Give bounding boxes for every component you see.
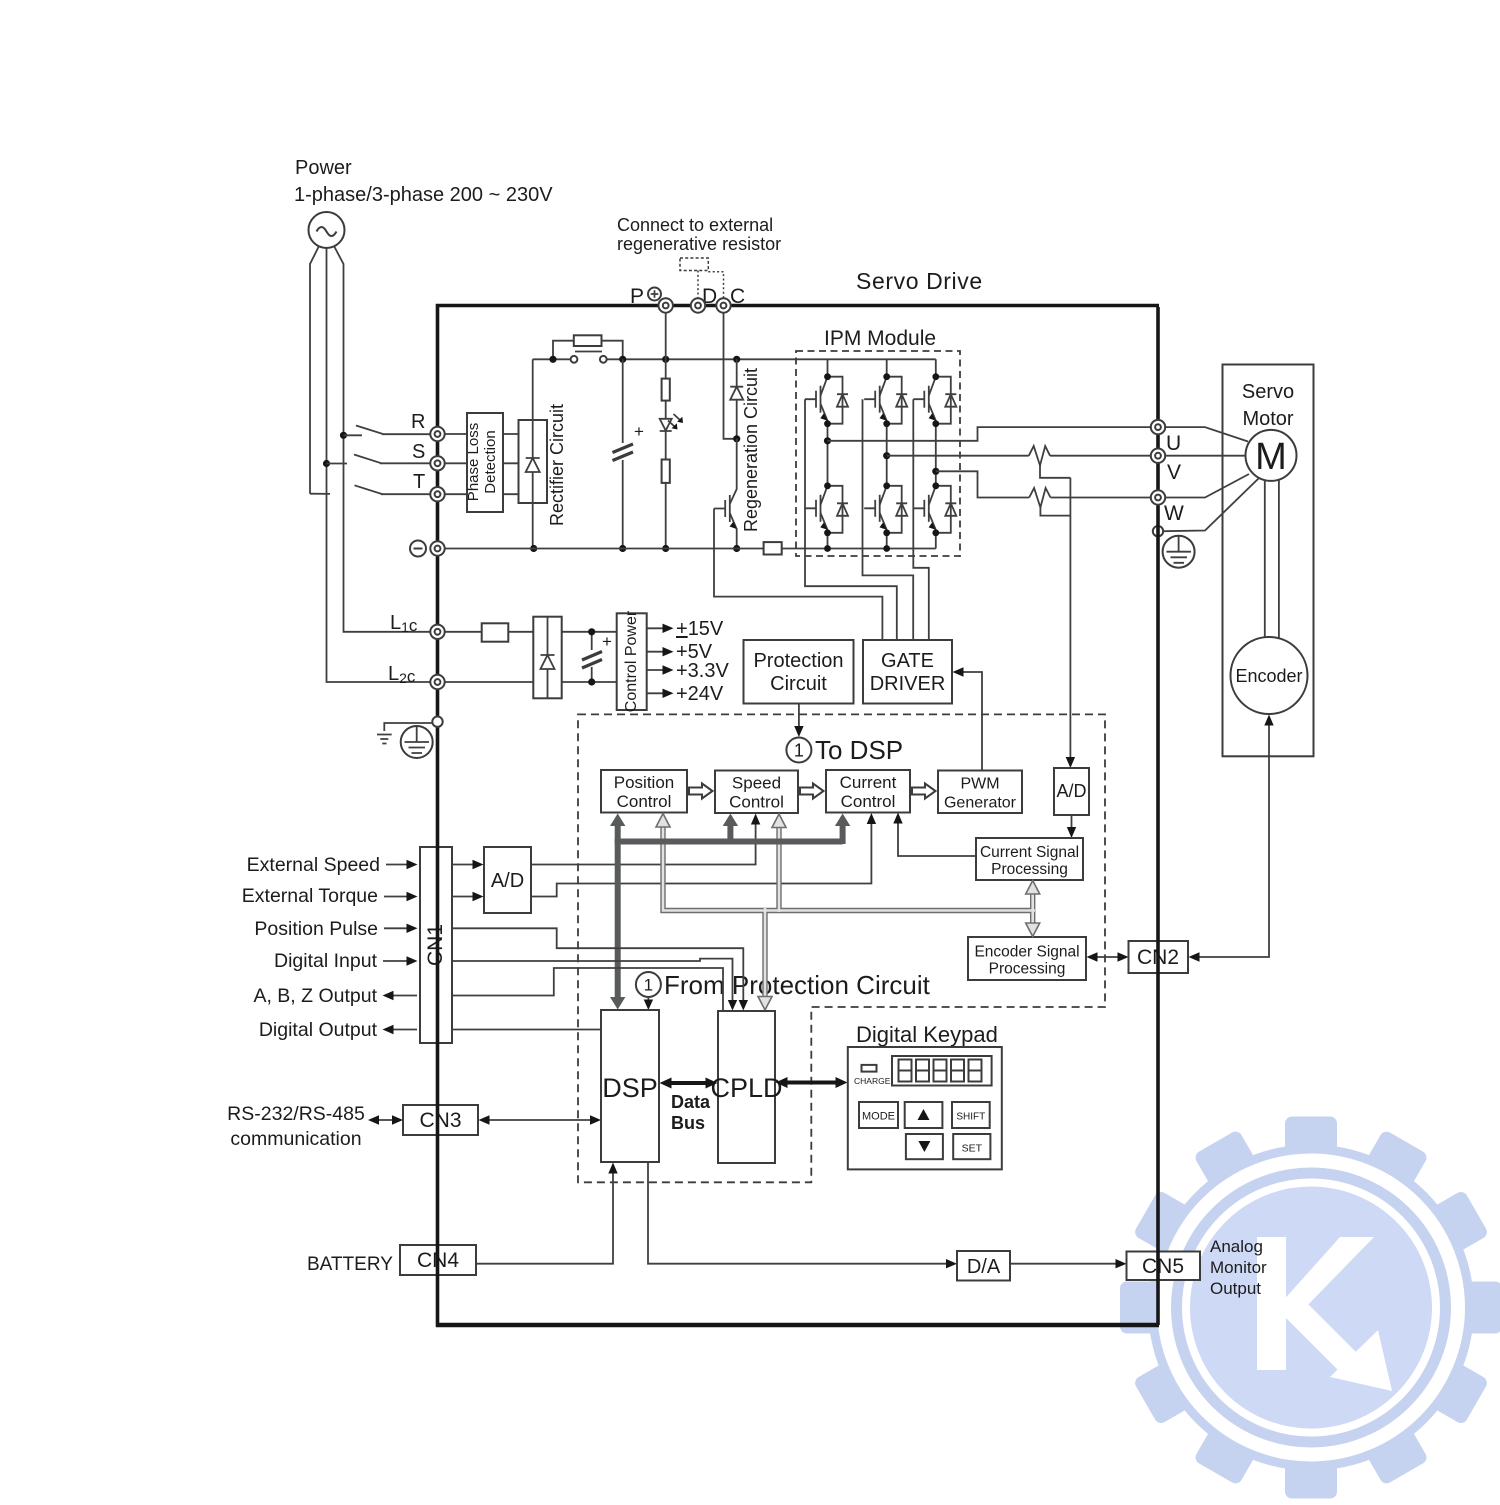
wire R row to PLD and rectifier — [445, 433, 519, 435]
wire L1c to fuse — [445, 631, 482, 633]
up button — [905, 1102, 943, 1128]
svg-text:communication: communication — [230, 1128, 361, 1150]
svg-text:W: W — [1164, 502, 1184, 525]
DSP box — [601, 1010, 659, 1162]
svg-text:DRIVER: DRIVER — [870, 673, 946, 695]
terminal C — [716, 298, 730, 312]
IPM leg 3 wires — [935, 359, 937, 548]
svg-text:+: + — [634, 422, 644, 441]
AC source — [309, 212, 345, 248]
transistor Q2 upper leg2 — [864, 373, 907, 427]
wire PE to motor — [1163, 479, 1258, 532]
node regen top — [733, 356, 740, 363]
svg-text:+24V: +24V — [676, 683, 724, 705]
fuse L1c — [482, 623, 509, 641]
transistor Q4 lower leg1 — [805, 482, 848, 536]
node S junction — [323, 460, 330, 467]
svg-text:External Torque: External Torque — [242, 885, 378, 907]
svg-text:Data: Data — [671, 1092, 711, 1112]
Digital Keypad panel — [848, 1047, 1002, 1169]
svg-text:Connect to external: Connect to external — [617, 215, 773, 235]
Phase Loss Detection box — [467, 413, 503, 512]
node rectifier bottom — [530, 545, 537, 552]
svg-text:1: 1 — [644, 976, 653, 995]
minus terminal symbol — [410, 541, 426, 557]
Protection Circuit box — [744, 640, 854, 704]
node regen mid — [733, 435, 740, 442]
svg-text:Output: Output — [1210, 1279, 1261, 1298]
transistor Q3 upper leg3 — [913, 373, 956, 427]
relay blade — [575, 351, 602, 353]
node leg2 bus — [883, 545, 890, 552]
arrow digital input — [383, 960, 412, 962]
terminal D — [691, 298, 705, 312]
wire +24V out — [647, 692, 668, 694]
Rectifier box — [519, 420, 548, 503]
svg-text:Regeneration Circuit: Regeneration Circuit — [741, 368, 761, 532]
shunt resistor — [764, 542, 782, 554]
seven segment display — [892, 1056, 992, 1086]
gate wire middle pair — [863, 399, 914, 639]
wire AD1 speed command — [531, 819, 756, 865]
node control cap bottom — [588, 678, 595, 685]
switch S — [327, 455, 431, 464]
switch T — [310, 485, 431, 494]
svg-text:Digital Output: Digital Output — [259, 1019, 378, 1041]
MODE button — [859, 1102, 898, 1128]
soft start resistor — [574, 335, 602, 346]
Servo Motor box — [1223, 365, 1314, 757]
svg-text:Processing: Processing — [991, 861, 1068, 878]
svg-text:A/D: A/D — [491, 870, 524, 892]
bulk capacitor plates — [613, 444, 634, 461]
node leg1 bus — [824, 545, 831, 552]
svg-text:Motor: Motor — [1242, 408, 1293, 430]
svg-text:Current: Current — [840, 773, 897, 792]
down button — [906, 1134, 943, 1159]
node W tap — [932, 468, 939, 475]
servo drive border — [438, 306, 1160, 1326]
CN1 box — [420, 847, 452, 1043]
watermark gear logo — [1120, 1117, 1500, 1499]
svg-text:BATTERY: BATTERY — [307, 1254, 393, 1275]
svg-text:To DSP: To DSP — [815, 735, 903, 765]
terminal L1c — [430, 625, 444, 639]
PWM Generator box — [938, 771, 1022, 814]
IPM leg 1 wires — [827, 359, 829, 548]
wire fuse to control rectifier — [508, 631, 533, 633]
svg-text:SHIFT: SHIFT — [956, 1112, 985, 1123]
svg-text:regenerative resistor: regenerative resistor — [617, 234, 781, 254]
svg-text:CN3: CN3 — [419, 1109, 461, 1132]
wire S row to PLD and rectifier — [445, 462, 519, 464]
relay contact circles — [571, 356, 578, 363]
A/D box right — [1054, 768, 1089, 815]
motor shaft lines — [1265, 480, 1279, 638]
svg-text:R: R — [411, 411, 425, 433]
svg-text:Control: Control — [617, 792, 672, 811]
gate wire left pair — [805, 399, 897, 639]
svg-text:Control Power: Control Power — [623, 610, 640, 712]
wire +5V out — [647, 651, 668, 653]
block arrow position to speed — [689, 784, 713, 799]
wire phase S from source — [326, 248, 328, 464]
servo drive border bottom — [436, 1323, 1159, 1328]
CN4 box — [400, 1245, 476, 1275]
wire protection to note1 — [798, 704, 800, 732]
svg-text:M: M — [1255, 436, 1287, 478]
node 1 To DSP — [786, 738, 811, 763]
PE circle symbol right — [1163, 536, 1195, 568]
wire S node to L2c — [327, 464, 431, 683]
terminal T — [430, 487, 444, 501]
switch R — [344, 426, 431, 436]
svg-text:SET: SET — [962, 1143, 983, 1155]
wire CSP to current control — [898, 818, 976, 857]
svg-text:D/A: D/A — [967, 1256, 1001, 1278]
svg-text:1-phase/3-phase 200 ~ 230V: 1-phase/3-phase 200 ~ 230V — [294, 184, 553, 206]
Speed Control box — [715, 771, 798, 814]
LED arrows — [668, 414, 680, 427]
bottom DC bus — [445, 548, 936, 550]
wire encoder feedback — [1194, 725, 1269, 957]
CN3 box — [403, 1105, 478, 1135]
bulk capacitor branch — [622, 359, 624, 548]
transistor Q5 lower leg2 — [864, 482, 907, 536]
svg-text:Position: Position — [614, 773, 674, 792]
wire current sense W drop — [1040, 508, 1070, 516]
svg-text:Digital Keypad: Digital Keypad — [856, 1022, 998, 1047]
terminal W — [1151, 490, 1165, 504]
wire rect to control power bottom — [562, 681, 617, 683]
open arrowhead into ESP — [1026, 923, 1040, 937]
svg-text:External Speed: External Speed — [247, 854, 380, 876]
svg-text:Processing: Processing — [989, 961, 1066, 978]
wire PWM to gate driver — [958, 672, 983, 771]
svg-text:IPM Module: IPM Module — [824, 327, 936, 350]
main schematic — [227, 157, 1313, 1325]
wire rectifier bottom to bus — [532, 503, 534, 549]
svg-text:V: V — [1167, 461, 1181, 484]
node V tap — [883, 452, 890, 459]
block arrow speed to current — [800, 784, 824, 799]
control cap plates — [582, 652, 602, 669]
svg-text:RS-232/RS-485: RS-232/RS-485 — [227, 1103, 365, 1125]
Position Control box — [601, 770, 687, 813]
CN2 box — [1129, 941, 1189, 973]
arrow position pulse — [384, 927, 412, 929]
wire L2c to control rectifier — [445, 681, 534, 683]
regen diode branch — [730, 359, 743, 439]
gate wire right pair — [913, 399, 929, 639]
svg-text:T: T — [413, 471, 425, 493]
terminal minus — [430, 541, 444, 555]
wire C terminal drop — [724, 312, 737, 439]
svg-text:PWM: PWM — [960, 776, 999, 793]
indicator LED — [660, 419, 672, 460]
svg-text:Phase Loss: Phase Loss — [465, 423, 482, 501]
svg-text:A/D: A/D — [1056, 781, 1086, 801]
svg-text:CN5: CN5 — [1142, 1255, 1184, 1278]
thick gray arrow DSP position — [615, 820, 621, 1003]
svg-text:Servo: Servo — [1242, 381, 1294, 403]
A/D box left — [484, 847, 531, 913]
wire DSP to DA — [648, 1162, 952, 1264]
svg-text:Servo Drive: Servo Drive — [856, 268, 983, 294]
svg-text:Position Pulse: Position Pulse — [254, 918, 378, 940]
arrow CN1 to AD 2 — [452, 896, 478, 898]
terminal R — [430, 427, 444, 441]
wire phase R from source — [334, 246, 344, 435]
wire W to motor — [1165, 474, 1250, 498]
svg-text:DSP: DSP — [602, 1073, 658, 1103]
node bypass left — [549, 356, 556, 363]
open arrowhead into CPLD — [758, 997, 772, 1011]
svg-text:GATE: GATE — [881, 650, 934, 672]
terminal L2c — [430, 675, 444, 689]
dotted wire C to resistor — [708, 272, 723, 300]
svg-text:MODE: MODE — [862, 1111, 895, 1123]
Encoder Signal Processing box — [968, 937, 1086, 980]
svg-text:Encoder: Encoder — [1235, 666, 1302, 686]
wire rect to control power top — [562, 631, 617, 633]
node 1 From Protection Circuit — [636, 972, 661, 997]
wire digital output from DSP — [452, 1029, 601, 1031]
wire P terminal drop — [665, 312, 667, 359]
Current Signal Processing box — [976, 838, 1083, 880]
svg-text:CPLD: CPLD — [710, 1073, 782, 1103]
thick gray branch to speed and current — [615, 822, 843, 844]
top DC bus — [533, 358, 936, 360]
wire CN4 to DSP — [476, 1168, 613, 1264]
transistor Q6 lower leg3 — [913, 482, 956, 536]
wire CN3 to DSP — [484, 1119, 596, 1121]
svg-text:Digital Input: Digital Input — [274, 950, 378, 972]
wire V output — [887, 455, 1152, 457]
svg-text:CHARGE: CHARGE — [854, 1076, 891, 1086]
circled plus — [648, 288, 661, 301]
SET button — [953, 1134, 990, 1159]
CN5 box — [1127, 1252, 1201, 1281]
rectifier diode — [526, 420, 540, 503]
ground wire left PE — [384, 723, 432, 731]
node R junction — [340, 432, 347, 439]
control rectifier box — [533, 617, 561, 699]
terminal S — [430, 456, 444, 470]
wire current sense V drop — [1040, 466, 1070, 478]
arrow RS232 to CN3 — [373, 1119, 398, 1121]
wire rectifier top to bus — [532, 359, 534, 420]
svg-text:+3.3V: +3.3V — [676, 660, 729, 682]
node indicator bottom — [662, 545, 669, 552]
control rectifier diode — [541, 617, 555, 699]
charge LED — [862, 1065, 877, 1072]
svg-text:1: 1 — [794, 741, 804, 761]
wire V to motor — [1165, 455, 1247, 457]
wire W output — [936, 471, 1152, 497]
open arrowhead into CSP — [1026, 881, 1040, 895]
svg-text:S: S — [412, 441, 425, 463]
wire phase T from source — [310, 246, 319, 494]
control section dashed box — [578, 714, 1105, 1182]
wire AD to current signal processing — [1071, 815, 1073, 833]
IPM leg 2 wires — [886, 359, 888, 548]
svg-text:Control: Control — [729, 793, 784, 812]
svg-text:Rectifier Circuit: Rectifier Circuit — [547, 404, 567, 526]
svg-text:A, B, Z Output: A, B, Z Output — [253, 985, 377, 1007]
svg-text:U: U — [1166, 432, 1181, 455]
motor M circle — [1246, 430, 1297, 481]
wire R node to L1c — [344, 435, 431, 632]
indicator resistor 2 — [662, 460, 670, 483]
PE circle symbol left — [401, 726, 433, 758]
node control cap top — [588, 628, 595, 635]
wire note1 to DSP — [647, 996, 649, 1004]
gate wire regen — [714, 509, 882, 640]
arrow CN1 to AD 1 — [452, 864, 478, 866]
svg-text:Generator: Generator — [944, 795, 1017, 812]
soft start resistor loop — [553, 341, 623, 360]
arrow digital out — [388, 1029, 417, 1031]
svg-text:Bus: Bus — [671, 1113, 705, 1133]
arrow external speed — [386, 864, 412, 866]
Control Power box — [617, 613, 647, 710]
svg-text:+: + — [602, 632, 612, 651]
open arrow ESP to controls — [663, 817, 1033, 1004]
svg-text:Control: Control — [841, 792, 896, 811]
svg-text:+15V: +15V — [676, 618, 724, 640]
dotted wire D to resistor — [697, 271, 699, 301]
wire digital input to CPLD — [452, 959, 733, 1005]
svg-text:Speed: Speed — [732, 774, 781, 793]
svg-text:Power: Power — [295, 157, 352, 179]
svg-text:Detection: Detection — [482, 430, 499, 493]
wire position pulse to CPLD — [452, 928, 743, 1004]
GATE DRIVER box — [863, 640, 952, 704]
wire +15V out — [647, 627, 668, 629]
svg-text:Protection: Protection — [753, 650, 843, 672]
svg-text:Monitor: Monitor — [1210, 1258, 1267, 1277]
node regen bottom — [733, 545, 740, 552]
Current Control box — [826, 770, 910, 813]
ground terminal circle — [1153, 526, 1163, 536]
arrow ABZ out — [388, 995, 417, 997]
terminal PE — [432, 717, 442, 727]
node bypass right — [619, 356, 626, 363]
IPM Module dashed box — [796, 351, 960, 556]
svg-text:Current Signal: Current Signal — [980, 844, 1079, 861]
terminal V — [1151, 449, 1165, 463]
wire ESP to CN2 — [1092, 956, 1124, 958]
current sensor V — [1029, 446, 1050, 466]
svg-text:Circuit: Circuit — [770, 673, 827, 695]
node P drop — [662, 356, 669, 363]
terminal P — [659, 298, 673, 312]
earth symbol small — [377, 735, 392, 744]
svg-text:Encoder Signal: Encoder Signal — [974, 944, 1079, 961]
indicator branch resistor 1 — [665, 359, 667, 419]
encoder circle — [1231, 637, 1308, 714]
svg-text:Analog: Analog — [1210, 1237, 1263, 1256]
SHIFT button — [952, 1102, 990, 1128]
arrow external torque — [384, 896, 412, 898]
svg-text:From Protection Circuit: From Protection Circuit — [664, 970, 931, 1000]
transistor Q1 upper leg1 — [805, 373, 848, 427]
terminal U — [1151, 420, 1165, 434]
open arrowhead into speed control — [772, 814, 786, 828]
wire U to motor — [1165, 427, 1249, 441]
CPLD box — [718, 1011, 775, 1163]
wire T row to PLD and rectifier — [445, 493, 519, 495]
block arrow current to pwm — [912, 784, 936, 799]
thick arrow CPLD keypad — [783, 1081, 840, 1085]
thick arrow DSP CPLD — [667, 1081, 710, 1085]
wire ABZ from CPLD — [452, 968, 723, 1011]
external regen resistor dashed — [680, 258, 708, 271]
node cap bottom — [619, 545, 626, 552]
wire +3.3V out — [647, 669, 668, 671]
D/A box — [957, 1251, 1010, 1281]
wire U output — [828, 427, 1152, 441]
regen IGBT — [730, 439, 737, 504]
svg-text:CN1: CN1 — [424, 924, 447, 966]
wire AD2 torque command — [531, 818, 871, 897]
node U tap — [824, 437, 831, 444]
current sensor W — [1029, 488, 1050, 508]
wire DA to CN5 — [1010, 1263, 1121, 1265]
open arrowhead into position control — [656, 814, 670, 828]
wire current sense to AD — [1069, 478, 1071, 763]
